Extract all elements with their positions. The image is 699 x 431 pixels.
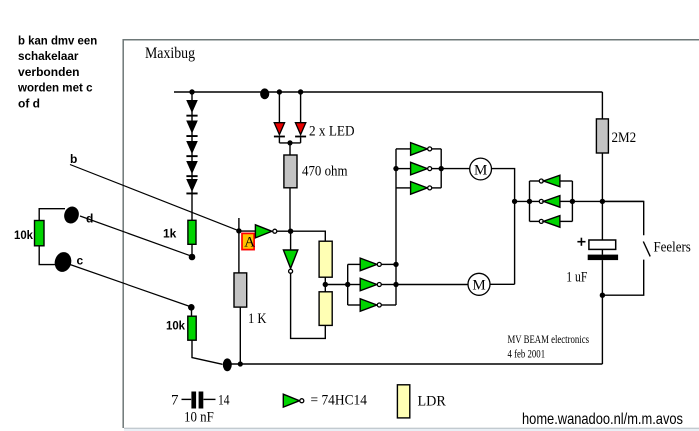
motor M2 <box>468 273 490 295</box>
svg-text:A: A <box>244 235 255 251</box>
diode D2 <box>186 121 198 138</box>
node: big blob junction on top rail <box>260 88 269 99</box>
inverter C1 <box>360 258 381 271</box>
wire: cap bottom lead <box>601 260 603 295</box>
node: dot upper trio in row2 <box>393 166 398 171</box>
svg-text:MV BEAM electronics: MV BEAM electronics <box>508 334 590 346</box>
inverter C2 <box>360 278 381 291</box>
capacitor C1 plus sign <box>577 238 585 246</box>
resistor 1k (green) <box>188 220 196 244</box>
wire: diagonal b line <box>70 165 239 231</box>
wire: motor bus to inhibit trio <box>515 200 540 202</box>
bottom scrollbar strip <box>124 428 699 431</box>
LED 2 (red) <box>295 123 306 143</box>
resistor 1 K (gray) <box>234 273 247 307</box>
wire: down to ground rail <box>601 295 603 364</box>
inverter D1 <box>411 143 432 156</box>
marker box A <box>242 233 255 250</box>
svg-text:10k: 10k <box>166 319 185 333</box>
wire: diagonal d line <box>80 216 191 256</box>
wire: inhibit input stubs <box>560 181 573 221</box>
wire: down inverter output to LDR2 bottom <box>291 273 326 338</box>
node: LED join dot <box>287 140 292 145</box>
svg-text:c: c <box>77 254 84 268</box>
wire: inhibit trio left vertical <box>529 181 531 221</box>
wire: LED cathode join <box>279 142 300 144</box>
wire: diode chain vertical <box>191 92 193 220</box>
wire: inhibit bubble stubs <box>530 181 540 221</box>
resistor 2M2 (gray) <box>596 119 608 153</box>
svg-text:1k: 1k <box>163 227 177 241</box>
svg-text:10 nF: 10 nF <box>184 410 214 426</box>
wire: lower trio input vertical <box>347 264 349 305</box>
legend capacitor pins 7 and 14 <box>171 392 230 409</box>
wire: ground rail <box>227 363 602 365</box>
wire: LED2 anode lead <box>300 92 302 123</box>
svg-text:2 x LED: 2 x LED <box>309 124 355 140</box>
wire: upper trio input stubs <box>396 149 411 188</box>
wire: inhibit trio right vertical <box>571 181 573 221</box>
contact blob c <box>53 250 74 273</box>
svg-text:home.wanadoo.nl/m.m.avos: home.wanadoo.nl/m.m.avos <box>522 411 683 428</box>
switch: feeler lever <box>643 242 650 257</box>
wire: M2 to right vertical <box>490 283 515 285</box>
svg-text:Feelers: Feelers <box>654 240 691 256</box>
node: junction at inverter A input <box>236 228 241 233</box>
wire: inhibit to cap node <box>572 200 643 202</box>
svg-text:M: M <box>472 278 485 294</box>
wire: below 1k <box>191 244 193 254</box>
node: junction dot LED2 tap <box>298 89 303 94</box>
wire: cap mid lead <box>601 249 603 254</box>
node: cap node dot <box>600 199 605 204</box>
wire: diagonal c line <box>70 265 190 307</box>
diode D4 <box>186 161 198 177</box>
wire: stub above node A <box>238 218 240 231</box>
wire: inverter A output <box>277 230 291 232</box>
wire: lower trio to motor M2 <box>396 284 468 286</box>
node: 1K ground dot <box>238 361 243 366</box>
wire: upper trio output stubs <box>432 149 441 188</box>
wire: 470 ohm bottom lead <box>289 188 291 231</box>
svg-text:Maxibug: Maxibug <box>145 45 195 62</box>
node: terminal dot d <box>189 254 196 261</box>
node: dot lower trio out row2 <box>393 282 398 287</box>
svg-text:1 K: 1 K <box>248 311 267 327</box>
annotation text block top-left <box>17 34 97 111</box>
inverter E2 (left-pointing) <box>539 196 560 208</box>
svg-text:= 74HC14: = 74HC14 <box>311 393 368 409</box>
node: dot lower trio out row1 <box>393 262 398 267</box>
wire: 1K bottom lead <box>239 307 241 364</box>
inverter E3 (left-pointing) <box>539 216 560 228</box>
svg-text:4 feb 2001: 4 feb 2001 <box>508 348 546 360</box>
svg-text:verbonden: verbonden <box>18 65 80 79</box>
wire: top supply rail <box>174 91 602 93</box>
inverter B (downward 74HC14 gate) <box>283 250 297 273</box>
resistor 10k upper-left (green) <box>35 221 45 246</box>
LDR 2 (pale yellow) <box>319 292 332 326</box>
diode D3 <box>186 141 198 157</box>
frame border of schematic area <box>123 40 699 428</box>
LDR 1 (pale yellow) <box>319 241 332 277</box>
resistor 470 ohm (gray) <box>284 155 297 188</box>
svg-text:10k: 10k <box>14 228 33 242</box>
wire: LDR mid to trio input <box>325 284 347 286</box>
wire: upper trio output vertical <box>440 149 442 188</box>
svg-text:b kan dmv een: b kan dmv een <box>18 34 97 48</box>
inverter A (74HC14 gate) <box>255 225 276 238</box>
wire: lead to 1K <box>238 231 240 273</box>
wire: 10k bottom lead to c <box>39 246 56 265</box>
diode D1 <box>186 100 198 117</box>
legend inverter symbol <box>283 394 304 407</box>
node: motor bus dot <box>512 199 517 204</box>
svg-text:of d: of d <box>18 96 40 110</box>
svg-text:7: 7 <box>171 393 179 409</box>
wire: to down inverter <box>290 231 292 250</box>
node: inhibit left dot <box>527 199 532 204</box>
node: lower trio input dot <box>345 282 350 287</box>
wire: between LDRs <box>324 277 326 292</box>
wire: LED1 anode lead <box>278 92 280 123</box>
wire: input to inverter A <box>239 230 256 232</box>
svg-text:LDR: LDR <box>418 393 446 409</box>
svg-text:worden met c: worden met c <box>17 81 93 95</box>
motor M1 <box>470 158 492 180</box>
capacitor C1 1uF <box>588 240 618 260</box>
inverter D3 <box>411 182 432 195</box>
node: inhibit right dot <box>570 199 575 204</box>
svg-text:14: 14 <box>218 393 230 409</box>
resistor 10k lower (green) <box>188 316 196 340</box>
legend LDR symbol <box>397 385 409 418</box>
wire: A output to LDR1 <box>291 231 326 241</box>
svg-text:b: b <box>70 152 77 166</box>
inverter D2 <box>411 162 432 175</box>
node: junction inverter A output <box>288 229 293 234</box>
node: upper trio output dot <box>439 166 444 171</box>
wire: to 470 ohm <box>289 143 291 155</box>
wire: lower trio input stubs <box>348 264 361 305</box>
node: junction dot diode chain top <box>189 89 194 94</box>
svg-text:M: M <box>474 162 487 178</box>
diode D5 <box>186 179 198 194</box>
svg-text:1 uF: 1 uF <box>566 270 587 286</box>
node: LDR mid junction <box>323 282 328 287</box>
node: terminal dot c <box>188 304 195 311</box>
inverter E1 (left-pointing) <box>539 175 560 187</box>
inverter C3 <box>360 299 381 312</box>
LED 1 (red) <box>274 123 285 143</box>
wire: cross-coupling vertical <box>395 149 397 305</box>
node: junction dot LED1 tap <box>277 89 282 94</box>
node: ground blob <box>223 358 232 371</box>
contact blob d <box>62 205 81 226</box>
wire: to motor M1 <box>441 168 470 170</box>
svg-text:470 ohm: 470 ohm <box>302 164 348 180</box>
switch: feeler upper arm <box>602 201 643 235</box>
wire: 10k lower top lead <box>191 307 193 316</box>
wire: lower trio output stubs <box>381 264 396 305</box>
wire: 2M2 bottom lead <box>601 153 603 201</box>
svg-text:2M2: 2M2 <box>612 130 637 146</box>
wire: top rail down to 2M2 <box>601 92 603 119</box>
svg-text:schakelaar: schakelaar <box>18 49 79 63</box>
wire: M1 to right vertical <box>492 169 515 285</box>
wire: 10k lower bottom lead to ground blob <box>192 340 223 364</box>
node: cap bottom dot <box>600 293 605 298</box>
wire: 10k top lead to d <box>39 209 65 221</box>
wire: cap top lead <box>601 201 603 240</box>
switch: feeler lower arm <box>602 260 643 296</box>
